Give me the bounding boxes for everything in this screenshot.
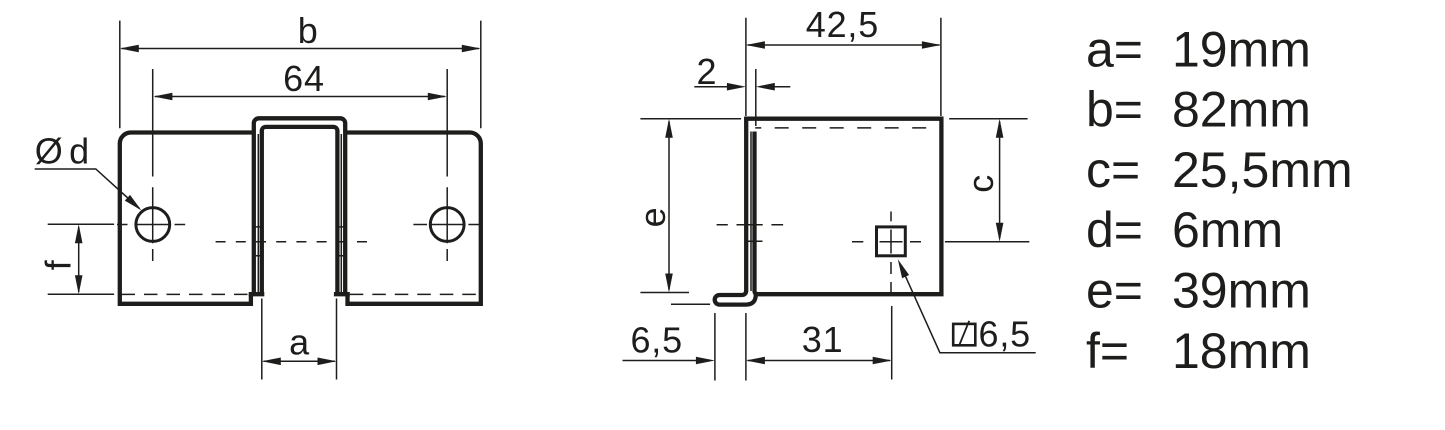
dimension 64 line	[155, 96, 445, 98]
svg-text:e: e	[632, 207, 673, 228]
dimension c arrows	[996, 119, 1004, 138]
square hole crosshair horizontal	[852, 241, 921, 243]
hidden bend line top	[755, 127, 941, 129]
leader arrow for d	[125, 195, 142, 211]
svg-text:a=: a=	[1086, 21, 1143, 77]
leader line square 6,5	[903, 271, 1036, 353]
right leg hidden hole edges	[336, 227, 347, 256]
dimension 42,5 arrows	[746, 41, 765, 49]
svg-text:a: a	[289, 321, 310, 362]
hidden centerline mid	[216, 241, 376, 243]
dimension e line	[668, 122, 670, 290]
svg-text:39mm: 39mm	[1172, 263, 1311, 319]
dimension 31 arrows	[746, 357, 765, 365]
dimension e extension lines	[640, 119, 741, 293]
plate bend line	[750, 132, 752, 292]
hole right crosshair vertical + 64 extension	[446, 69, 448, 261]
svg-text:25,5mm: 25,5mm	[1172, 142, 1353, 198]
dimension c line	[999, 122, 1001, 239]
dimension f line	[78, 227, 80, 292]
svg-text:c: c	[960, 174, 1001, 193]
svg-text:e=: e=	[1086, 263, 1143, 319]
svg-text:42,5: 42,5	[806, 4, 879, 45]
left leg hidden hole edges	[253, 227, 264, 256]
hole left crosshair vertical + 64 extension	[152, 69, 154, 261]
hidden centerline at hole level	[717, 224, 784, 226]
bracket outer outline	[120, 133, 481, 304]
hole left crosshair horizontal	[117, 224, 185, 226]
foot bottom extension line	[671, 303, 710, 305]
svg-text:82mm: 82mm	[1172, 82, 1311, 138]
U-channel outer contour	[254, 118, 345, 294]
channel leg bottom edges	[249, 292, 350, 296]
svg-text:c=: c=	[1086, 142, 1140, 198]
dimension 6,5 arrow	[696, 357, 715, 365]
dimension a arrows	[262, 358, 281, 366]
square hole	[877, 227, 906, 256]
dimension f extension lines	[48, 224, 114, 294]
hidden fold line right	[350, 293, 480, 295]
svg-text:f=: f=	[1086, 323, 1129, 379]
dimension c extension lines	[945, 119, 1029, 242]
svg-text:18mm: 18mm	[1172, 323, 1311, 379]
hole right	[430, 208, 464, 242]
square hole center extension to 31 dim	[891, 306, 893, 380]
dimension 6,5 tail	[623, 360, 698, 362]
dimension b arrows	[120, 45, 139, 53]
svg-text:6,5: 6,5	[630, 320, 682, 361]
svg-text:64: 64	[283, 58, 325, 99]
svg-text:f: f	[38, 259, 79, 270]
dimension f arrows	[75, 224, 83, 243]
dimension a extension lines	[262, 299, 337, 380]
dimension b extension lines	[120, 21, 481, 129]
square symbol slash	[959, 321, 969, 347]
svg-text:19mm: 19mm	[1172, 21, 1311, 77]
dimension 2 arrows	[727, 83, 746, 91]
dimension 64 arrows	[153, 93, 172, 101]
plate hidden hole tick	[746, 240, 763, 242]
dimension 2 extension line	[755, 69, 757, 126]
dimension e arrows	[665, 119, 673, 138]
right leg bend line	[340, 134, 342, 293]
dimension a line	[264, 360, 335, 362]
left leg bend line	[257, 134, 259, 293]
svg-text:2: 2	[696, 51, 717, 92]
svg-text:31: 31	[802, 319, 844, 360]
svg-text:Ød: Ød	[35, 131, 90, 172]
svg-text:b: b	[298, 10, 319, 51]
square symbol	[953, 324, 975, 345]
dimension 42,5 line	[748, 44, 940, 46]
plate outer face and foot	[715, 117, 756, 305]
dimension 2 tails	[694, 86, 790, 88]
hole right crosshair horizontal	[413, 224, 479, 226]
svg-text:6,5: 6,5	[979, 313, 1031, 354]
svg-text:d=: d=	[1086, 202, 1143, 258]
dimension b line	[122, 48, 480, 50]
leader arrow square 6,5	[898, 259, 909, 278]
svg-text:6mm: 6mm	[1172, 202, 1283, 258]
square hole crosshair vertical	[890, 212, 892, 295]
dimension 31 line	[748, 360, 891, 362]
hole left	[136, 208, 170, 242]
leader line for d	[35, 169, 140, 209]
hidden fold line left	[122, 293, 249, 295]
svg-text:b=: b=	[1086, 82, 1143, 138]
U-channel inner contour	[262, 127, 338, 294]
side outline top/right/bottom and plate inner face	[744, 119, 941, 295]
dimension 6,5 extension lines	[715, 313, 746, 381]
dimension 42,5 extension lines	[746, 18, 941, 116]
